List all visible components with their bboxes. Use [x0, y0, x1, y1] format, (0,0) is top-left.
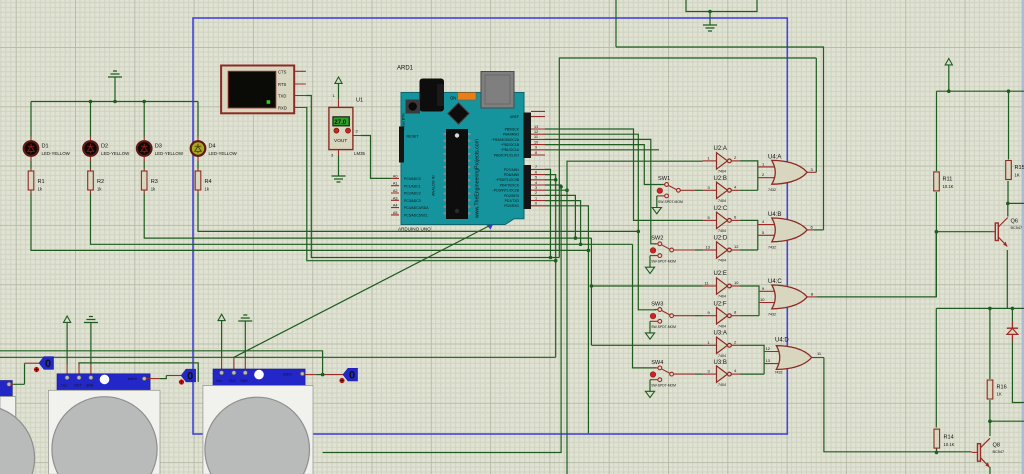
probe 1 logic state — [34, 367, 39, 372]
svg-text:R3: R3 — [151, 179, 158, 185]
wire PIR2 out to probe2 — [79, 363, 198, 382]
svg-text:7432: 7432 — [775, 371, 783, 375]
wire top vertical x616 — [615, 0, 617, 47]
resistor R1 — [28, 171, 34, 190]
svg-text:PC1/ADC1: PC1/ADC1 — [404, 184, 421, 188]
sensor PIR1 (cut at left edge) — [0, 363, 39, 474]
transistor Q6 BC547 — [992, 218, 1022, 247]
wire terminal RXD route — [306, 108, 556, 261]
svg-text:test'in: test'in — [128, 377, 137, 381]
svg-text:5: 5 — [535, 176, 537, 180]
wire Q6 collector node right — [1008, 202, 1024, 204]
power jack — [420, 79, 445, 112]
svg-text:2: 2 — [535, 191, 537, 195]
wire D2 column — [91, 102, 633, 245]
svg-text:A4: A4 — [393, 204, 398, 208]
gate U4:D — [764, 338, 824, 375]
svg-text:3: 3 — [535, 186, 537, 190]
svg-text:ANALOG IN: ANALOG IN — [432, 175, 436, 196]
wire SW4 to U3:B — [695, 373, 703, 375]
wire Q8 collector riser — [989, 421, 991, 436]
svg-text:12: 12 — [734, 244, 739, 249]
resistor R14 — [934, 429, 940, 448]
node bus junctions — [89, 100, 93, 104]
diode D3 — [137, 141, 152, 156]
node right side junctions — [947, 89, 951, 93]
svg-text:D3: D3 — [155, 144, 162, 150]
wire trunk y350.8 to probe3 column — [0, 351, 323, 375]
svg-text:ATMEGA328P: ATMEGA328P — [457, 172, 461, 196]
svg-text:R16: R16 — [997, 384, 1007, 390]
right header strips — [524, 113, 532, 159]
svg-text:LED-YELLOW: LED-YELLOW — [209, 151, 238, 156]
svg-text:SW1: SW1 — [658, 176, 670, 182]
svg-text:7404: 7404 — [718, 383, 726, 387]
wire pin4 long vertical — [323, 185, 561, 453]
wire pin0 to R1 line — [545, 206, 588, 251]
svg-text:SW-SPDT-MOM: SW-SPDT-MOM — [651, 260, 676, 264]
svg-text:Vcc: Vcc — [216, 379, 222, 383]
svg-text:PC4/ADC4/SDA: PC4/ADC4/SDA — [404, 206, 429, 210]
sensor U1 LM35 — [329, 107, 353, 149]
svg-text:7: 7 — [535, 165, 537, 169]
wire net2 horizontal y308.4 — [936, 307, 1024, 309]
gate U4:B — [758, 212, 814, 249]
diode D1 — [24, 141, 39, 156]
pin stubs arduino left side A0-A5 + reset — [391, 178, 399, 215]
wire R16 bottom — [989, 400, 991, 421]
power arrow right rail — [945, 59, 952, 65]
wire pin13 to U2:C input — [545, 129, 703, 220]
svg-text:10: 10 — [760, 297, 765, 302]
svg-text:TXD: TXD — [278, 94, 286, 99]
wire R11 top — [936, 91, 938, 171]
resistor R16 — [987, 380, 993, 399]
power arrow PIR3 — [218, 314, 225, 320]
wire PIR out trunk y357.3 — [0, 356, 556, 358]
svg-text:7404: 7404 — [718, 170, 726, 174]
svg-text:RESET: RESET — [407, 135, 420, 139]
wire pin6 to PIR trunk — [545, 175, 556, 358]
svg-text:www.TheEngineeringProjects.com: www.TheEngineeringProjects.com — [475, 139, 481, 218]
gate U2:A — [703, 146, 740, 174]
wire U4:D out down to Q8 base line — [824, 358, 972, 452]
svg-text:PD4/T0/XCK: PD4/T0/XCK — [500, 183, 520, 187]
resistor R11 — [934, 172, 940, 191]
svg-text:PD0/RXD: PD0/RXD — [504, 204, 519, 208]
ground above LED bus — [114, 77, 116, 102]
switch SW2 — [645, 236, 695, 274]
svg-text:7404: 7404 — [718, 324, 726, 328]
svg-text:7432: 7432 — [768, 188, 776, 192]
svg-text:VOUT: VOUT — [334, 138, 347, 144]
wire diagonal PIR3 out to arduino — [234, 225, 490, 357]
svg-text:A1: A1 — [393, 182, 398, 186]
svg-text:7404: 7404 — [718, 259, 726, 263]
svg-text:ARD1: ARD1 — [397, 66, 414, 72]
left header strip + RESET — [399, 127, 404, 163]
svg-text:PD7/AIN1: PD7/AIN1 — [504, 168, 519, 172]
svg-text:10.1K: 10.1K — [943, 184, 954, 189]
svg-text:RTS: RTS — [278, 82, 287, 87]
wire Q6 emitter down — [1006, 250, 1008, 308]
svg-text:D2: D2 — [101, 144, 108, 150]
svg-text:CTS: CTS — [278, 69, 287, 74]
switch SW1 — [652, 176, 695, 214]
svg-text:U4:D: U4:D — [775, 338, 789, 344]
right window edge strip — [1022, 0, 1024, 474]
svg-text:SW2: SW2 — [651, 236, 663, 242]
svg-text:A3: A3 — [393, 196, 398, 200]
svg-text:ARDUINO UNO: ARDUINO UNO — [398, 227, 431, 232]
svg-text:PD6/AIN0: PD6/AIN0 — [504, 173, 519, 177]
node bundle junctions — [554, 178, 558, 182]
svg-text:U4:A: U4:A — [768, 155, 781, 161]
svg-text:9: 9 — [535, 146, 537, 150]
wire U2:B out — [740, 189, 758, 191]
gate U2:B — [703, 176, 740, 203]
power arrow above U1 — [335, 77, 342, 83]
svg-text:R2: R2 — [97, 179, 104, 185]
svg-text:Q6: Q6 — [1011, 219, 1018, 225]
wire R1 line tail down — [587, 250, 589, 433]
svg-text:8: 8 — [535, 151, 537, 155]
svg-text:R15: R15 — [1015, 165, 1024, 171]
wire SW1 to U2:B — [695, 189, 703, 191]
svg-text:U3:B: U3:B — [714, 360, 727, 366]
svg-text:U4:B: U4:B — [768, 212, 781, 218]
svg-text:27.0: 27.0 — [334, 120, 346, 126]
wire terminal TXD route — [306, 96, 560, 258]
svg-text:ON: ON — [450, 96, 456, 101]
svg-text:test'in: test'in — [283, 372, 292, 376]
svg-text:13: 13 — [766, 358, 771, 363]
svg-text:PC2/ADC2: PC2/ADC2 — [404, 192, 421, 196]
svg-text:BC547: BC547 — [993, 450, 1005, 454]
wire U4:B out up — [813, 229, 823, 231]
wire pin12 to R4 line — [545, 134, 638, 231]
svg-text:11: 11 — [534, 135, 538, 139]
svg-text:~PD5/T1/OC0B: ~PD5/T1/OC0B — [495, 178, 519, 182]
svg-text:7404: 7404 — [718, 199, 726, 203]
wire U2:A out to U4:A — [740, 161, 758, 190]
wire pin2 to R3 line — [545, 195, 575, 238]
svg-text:OUT: OUT — [229, 379, 236, 383]
wire diode top — [1011, 308, 1013, 321]
svg-text:7432: 7432 — [768, 313, 776, 317]
pin stubs terminal CTS RTS TXD RXD — [294, 71, 306, 107]
gate U2:E — [703, 271, 740, 299]
svg-text:LED-YELLOW: LED-YELLOW — [101, 151, 130, 156]
svg-text:~PB3/MOSI/OC2A: ~PB3/MOSI/OC2A — [491, 138, 520, 142]
gate U3:B — [703, 360, 740, 387]
svg-text:10.1K: 10.1K — [944, 442, 955, 447]
right pin labels — [491, 115, 520, 208]
wire pin10 to SW1 pole — [545, 145, 663, 185]
svg-text:D1: D1 — [42, 144, 49, 150]
wire D3 column — [144, 102, 591, 239]
diode D5 — [1007, 322, 1018, 342]
wire R15 bottom to Q6 collector — [1007, 181, 1009, 203]
wire diode bottom — [1012, 341, 1024, 403]
gate U4:A — [758, 155, 817, 192]
wire Q6 base — [936, 231, 992, 233]
resistor R4 — [195, 171, 201, 190]
svg-text:0: 0 — [535, 202, 537, 206]
wire U4:C out to right — [817, 232, 937, 297]
svg-text:13: 13 — [534, 125, 538, 129]
svg-text:U2:E: U2:E — [714, 271, 727, 277]
wire R11 bottom to U4:C / Q6 base — [935, 192, 937, 297]
wire U2:D out — [740, 249, 758, 251]
svg-text:U2:B: U2:B — [714, 176, 727, 182]
svg-text:U2:F: U2:F — [714, 301, 727, 307]
wire power arrow stem — [948, 65, 950, 91]
wire U1 VOUT to A0 — [361, 136, 391, 179]
ground PIR2 — [84, 317, 98, 323]
svg-text:1K: 1K — [1015, 172, 1020, 177]
atmega chip — [444, 129, 471, 219]
svg-text:BC547: BC547 — [1011, 226, 1023, 230]
svg-text:SW-SPDT-MOM: SW-SPDT-MOM — [658, 200, 683, 204]
svg-text:7404: 7404 — [718, 354, 726, 358]
svg-text:R11: R11 — [943, 177, 953, 183]
crystal diamond — [448, 103, 469, 124]
svg-text:10: 10 — [734, 280, 739, 285]
svg-text:PB4/MISO: PB4/MISO — [503, 133, 519, 137]
probe 3 logic state — [339, 378, 344, 383]
switch SW4 — [645, 360, 695, 398]
transistor Q8 BC547 — [972, 438, 1004, 467]
power arrow PIR2 — [64, 316, 71, 322]
svg-text:Q8: Q8 — [993, 443, 1000, 449]
svg-text:12: 12 — [766, 346, 771, 351]
svg-text:OUT: OUT — [74, 384, 81, 388]
svg-text:GND: GND — [240, 379, 248, 383]
wire SW4 feed from R2 line — [633, 244, 657, 368]
wire Q6 collector riser — [1007, 203, 1009, 216]
wire U3:B out — [740, 373, 764, 375]
svg-text:GND: GND — [86, 384, 94, 388]
svg-text:SW-SPDT-MOM: SW-SPDT-MOM — [651, 325, 676, 329]
svg-text:D4: D4 — [209, 144, 216, 150]
svg-text:7432: 7432 — [768, 246, 776, 250]
resistor R15 (cut at edge) — [1006, 161, 1012, 180]
svg-text:R14: R14 — [944, 435, 954, 441]
switch SW3 — [645, 301, 695, 339]
blue junction marker on board bottom — [487, 225, 494, 230]
svg-text:PB0/ICP1/CLKO: PB0/ICP1/CLKO — [494, 153, 519, 157]
svg-text:~PD3/INT1/OC2B: ~PD3/INT1/OC2B — [492, 189, 520, 193]
svg-text:U3:A: U3:A — [714, 331, 727, 337]
wire pin9 dangling — [545, 149, 659, 151]
svg-text:Vcc: Vcc — [62, 384, 68, 388]
gate U2:F — [703, 301, 740, 328]
svg-text:PD1/TXD: PD1/TXD — [505, 199, 520, 203]
svg-text:AREF: AREF — [510, 115, 519, 119]
wire Q8 emitter tail — [989, 467, 991, 474]
svg-text:R1: R1 — [38, 179, 45, 185]
wire R16 bottom node right — [990, 420, 1024, 422]
virtual terminal body — [221, 66, 294, 114]
diode D4 (lit) — [191, 141, 206, 156]
svg-text:PD2/INT0: PD2/INT0 — [504, 194, 519, 198]
ground PIR3 — [238, 315, 252, 321]
pin stubs U1 — [339, 99, 362, 156]
svg-text:LED-YELLOW: LED-YELLOW — [42, 151, 71, 156]
svg-text:12: 12 — [534, 130, 538, 134]
wire U1 pin3 to ground — [338, 156, 340, 176]
wire pin3 to U2:A input — [545, 161, 703, 474]
svg-text:7404: 7404 — [718, 295, 726, 299]
LED red leg stubs — [31, 137, 198, 194]
wire U3:A out to U4:D — [740, 345, 764, 374]
svg-text:SW3: SW3 — [651, 301, 663, 307]
wire U2:F out — [740, 315, 759, 317]
gate U3:A — [703, 331, 740, 359]
svg-text:7404: 7404 — [718, 229, 726, 233]
svg-text:1K: 1K — [997, 392, 1002, 397]
node top ground junction — [708, 10, 712, 14]
sensor PIR2 — [48, 365, 181, 474]
svg-text:U4:C: U4:C — [768, 279, 782, 285]
gate U4:C — [759, 279, 817, 316]
svg-text:U2:A: U2:A — [714, 146, 727, 152]
usb connector — [481, 72, 514, 109]
svg-text:U2:D: U2:D — [714, 236, 728, 242]
pin numbers right of board — [534, 125, 538, 206]
probe 2 logic state — [179, 379, 184, 384]
sensor PIR3 — [203, 358, 343, 474]
wire SW2 to U2:D — [695, 249, 703, 251]
wire SW3 feed from R4 line — [638, 231, 656, 309]
wire PIR3 out up — [233, 357, 235, 358]
svg-text:LM35: LM35 — [354, 151, 366, 156]
svg-text:A5: A5 — [393, 211, 398, 215]
wire R14 bottom — [936, 449, 938, 453]
resistor R3 — [141, 171, 147, 190]
svg-text:PC5/ADC5/SCL: PC5/ADC5/SCL — [404, 214, 428, 218]
wire R15 top — [1008, 91, 1010, 159]
wire pin7 to TXD line — [545, 169, 551, 257]
wire R3 branch to U2:E and U3:A inputs — [591, 238, 702, 345]
svg-text:6: 6 — [535, 170, 537, 174]
wire D1 column — [31, 102, 588, 251]
wire pin1 to R2 line — [545, 201, 581, 245]
sheet border (blue rectangle) — [193, 18, 787, 434]
svg-text:A0: A0 — [393, 174, 398, 178]
wire pin5 joins — [545, 179, 556, 181]
ground top center — [703, 25, 717, 31]
wire top horizontal y47 to U4:B output column — [616, 47, 824, 230]
svg-text:U2:C: U2:C — [714, 206, 728, 212]
svg-text:PB5/SCK: PB5/SCK — [505, 127, 520, 131]
A0-A5 labels left of board — [393, 174, 398, 215]
gate U2:C — [703, 206, 740, 233]
gate U2:D — [703, 236, 740, 263]
wire U2:E out to U4:C — [740, 286, 759, 316]
wire pin11 to SW2 pole — [545, 139, 656, 243]
wire D4 column — [198, 102, 638, 232]
wire Vcc rail top right — [937, 90, 1024, 92]
wire net2 down to R14 — [935, 308, 937, 427]
wire LED anode bus y101.5 — [31, 101, 198, 103]
wire R16 top riser — [989, 308, 991, 379]
wire top horizontal y58 U4:A net — [559, 58, 816, 258]
svg-text:PC0/ADC0: PC0/ADC0 — [404, 177, 421, 181]
svg-text:~PB2/OC1B: ~PB2/OC1B — [500, 143, 519, 147]
svg-text:4: 4 — [535, 181, 537, 185]
svg-text:1: 1 — [535, 196, 537, 200]
svg-text:R4: R4 — [205, 179, 212, 185]
svg-text:LED-YELLOW: LED-YELLOW — [155, 151, 184, 156]
board body — [401, 93, 524, 225]
pin stubs arduino right side — [531, 111, 545, 205]
svg-text:~PB1/OC1A: ~PB1/OC1A — [500, 148, 519, 152]
diode D2 — [83, 141, 98, 156]
svg-text:SW4: SW4 — [651, 360, 663, 366]
svg-text:RXD: RXD — [278, 106, 287, 111]
svg-text:PC3/ADC3: PC3/ADC3 — [404, 199, 421, 203]
resistor R2 — [88, 171, 94, 190]
reset button — [406, 100, 421, 114]
node probe3 column junction — [321, 373, 325, 377]
svg-text:SW-SPDT-MOM: SW-SPDT-MOM — [651, 384, 676, 388]
svg-text:13: 13 — [706, 245, 711, 250]
svg-text:U1: U1 — [356, 98, 363, 104]
wire SW3 to U2:F — [695, 315, 703, 317]
svg-text:10: 10 — [534, 140, 538, 144]
ground below U1 — [332, 176, 346, 182]
wire top ground net verticals — [686, 0, 757, 25]
svg-text:A2: A2 — [393, 189, 398, 193]
wire U2:C out to U4:B — [740, 220, 758, 250]
